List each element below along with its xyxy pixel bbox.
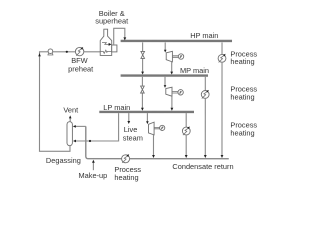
arrowhead LP return onto header xyxy=(185,155,188,158)
wire deaerator steam feed from LP main xyxy=(75,113,119,141)
arrowhead live steam xyxy=(127,121,130,124)
generator MP xyxy=(178,90,183,95)
svg-text:heating: heating xyxy=(230,57,254,66)
wire LP turbine inlet xyxy=(146,113,148,121)
svg-text:heating: heating xyxy=(230,129,254,138)
heat exchanger HP process heating xyxy=(218,54,226,63)
svg-text:Degassing: Degassing xyxy=(46,156,81,165)
arrowhead MP return onto header xyxy=(204,155,207,158)
heat exchanger BFW preheat xyxy=(75,47,83,56)
pump BFW xyxy=(48,49,54,55)
svg-text:Condensate return: Condensate return xyxy=(172,162,233,171)
arrowhead HP turbine inlet xyxy=(164,50,167,53)
svg-text:Make-up: Make-up xyxy=(78,171,107,180)
valve HP-MP letdown xyxy=(141,51,145,58)
svg-text:preheat: preheat xyxy=(68,64,93,73)
arrowhead vent up xyxy=(69,115,72,118)
wire boiler outlet to HP main xyxy=(114,28,125,45)
wire MP turbine outlet xyxy=(171,96,173,108)
heat exchanger LP process heating xyxy=(182,127,190,136)
arrowhead make-up into header xyxy=(92,160,95,163)
svg-text:HP main: HP main xyxy=(190,31,218,40)
condensate return header xyxy=(86,126,229,158)
arrowhead condensate into deaerator top xyxy=(73,125,76,128)
junction dot on BFW line xyxy=(66,51,68,53)
valve MP-LP letdown xyxy=(141,86,145,93)
arrowhead boiler steam onto HP main xyxy=(123,37,126,40)
LP main xyxy=(99,111,194,113)
arrowhead steam into deaerator xyxy=(73,140,76,143)
arrowhead LP turbine outlet onto header xyxy=(152,155,155,158)
wire LP process heating drop xyxy=(185,113,187,127)
wire live steam arrow xyxy=(128,113,130,121)
HP main xyxy=(121,40,232,42)
boiler upper coil with arrow xyxy=(102,43,109,45)
svg-text:superheat: superheat xyxy=(95,16,128,25)
wire deaerator top feed xyxy=(75,125,86,127)
arrowhead up on BFW riser xyxy=(38,53,41,56)
boiler superheater box xyxy=(112,45,117,52)
svg-text:heating: heating xyxy=(114,173,138,182)
arrowhead LP turbine inlet xyxy=(146,121,149,124)
arrowhead HP turbine outlet onto MP main xyxy=(170,72,173,75)
heat exchanger MP process heating xyxy=(201,90,209,99)
arrowhead MP letdown onto LP main xyxy=(141,108,144,111)
svg-text:heating: heating xyxy=(230,93,254,102)
wire MP turbine inlet xyxy=(164,77,166,86)
wire BFW feed loop (deaerator bottom to boiler) xyxy=(39,52,100,152)
wire HP turbine outlet xyxy=(171,62,173,72)
wire HP process heating return xyxy=(221,62,223,155)
junction dot on deaerator feed xyxy=(89,140,91,142)
boiler vessel xyxy=(100,29,112,55)
turbine MP-LP xyxy=(166,87,172,96)
arrowhead letdown onto MP main xyxy=(141,72,144,75)
arrowhead MP turbine inlet xyxy=(164,85,167,88)
wire HP turbine inlet xyxy=(164,42,166,50)
shaft MP turbine xyxy=(172,92,178,94)
arrowhead HP return onto header xyxy=(221,155,224,158)
boiler lower coil xyxy=(100,50,112,53)
svg-text:steam: steam xyxy=(123,133,143,142)
svg-text:MP main: MP main xyxy=(180,66,209,75)
wire LP turbine outlet xyxy=(152,135,154,155)
arrowhead MP turbine outlet onto LP main xyxy=(170,108,173,111)
wire LP process heating return xyxy=(185,135,187,155)
deaerator vessel xyxy=(67,122,72,146)
wire make-up xyxy=(92,162,94,170)
wire HP to MP letdown lower xyxy=(142,58,144,72)
wire MP to LP letdown upper xyxy=(141,77,143,87)
shaft LP turbine xyxy=(154,127,160,128)
turbine LP-condensate xyxy=(148,122,154,135)
wire MP process heating drop xyxy=(204,77,206,91)
turbine HP-MP xyxy=(166,51,172,62)
heat exchanger make-up process heating xyxy=(122,154,130,163)
shaft HP turbine xyxy=(173,56,179,58)
wire MP process heating return xyxy=(204,98,206,155)
wire HP to MP letdown upper xyxy=(142,42,144,51)
svg-text:LP main: LP main xyxy=(103,103,130,112)
generator LP xyxy=(160,125,165,130)
generator HP xyxy=(178,54,183,59)
wire MP to LP letdown lower xyxy=(141,93,143,108)
MP main xyxy=(121,74,208,76)
svg-text:Vent: Vent xyxy=(63,106,78,115)
wire HP process heating drop xyxy=(221,42,223,54)
wire vent xyxy=(69,118,71,121)
